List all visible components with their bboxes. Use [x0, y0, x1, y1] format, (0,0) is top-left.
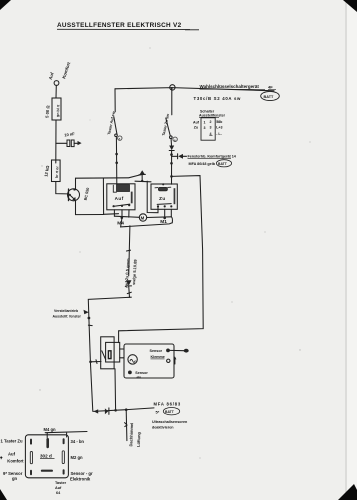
svg-text:Zu: Zu [159, 196, 166, 201]
wire [55, 85, 57, 98]
wire to terminal [170, 349, 184, 351]
wire [74, 142, 78, 144]
svg-text:M1: M1 [160, 219, 167, 225]
svg-text:Verstellantrieb: Verstellantrieb [54, 309, 78, 313]
relay K1 coil [117, 185, 130, 192]
rail connector circle [170, 85, 175, 90]
svg-text:1: 1 [204, 120, 206, 124]
paper speckles [39, 47, 310, 458]
svg-text:58b: 58b [216, 120, 223, 124]
svg-text:gn bl rt: gn bl rt [56, 104, 61, 117]
transistor Q1 BC550 [68, 189, 80, 201]
svg-text:Auf: Auf [193, 121, 200, 125]
resistor R1 500 ohm [52, 98, 61, 120]
table Schalter Ausstellfenster [193, 110, 226, 141]
wire [115, 138, 117, 185]
svg-text:Lüftung: Lüftung [136, 431, 142, 447]
svg-text:BATT: BATT [264, 95, 275, 99]
svg-text:34 - bn: 34 - bn [71, 439, 85, 444]
wire [171, 151, 173, 185]
diode D2 [178, 154, 183, 159]
terminal Auf/Komfort [54, 81, 59, 86]
title [57, 22, 199, 30]
plug stubs [120, 348, 124, 350]
svg-text:Elektronik: Elektronik [70, 477, 91, 482]
diode D3 [126, 280, 132, 285]
wire emitter down [70, 195, 75, 200]
actuator box sensor unit [124, 344, 174, 378]
svg-text:MFA 86/83: MFA 86/83 [154, 402, 182, 407]
svg-text:Ultraschallsensoren: Ultraschallsensoren [152, 420, 188, 424]
svg-text:Klemme: Klemme [151, 355, 165, 359]
wire stub to plug [91, 361, 102, 363]
svg-text:Auf: Auf [115, 196, 124, 201]
svg-text:br rt or: br rt or [55, 165, 60, 178]
resistor R2 12k [52, 160, 61, 182]
svg-text:2: 2 [210, 120, 212, 124]
svg-text:BATT: BATT [165, 410, 175, 414]
paper edge line [345, 0, 347, 500]
svg-text:1 Taster Zu: 1 Taster Zu [1, 438, 23, 443]
wire [56, 182, 68, 194]
scan corner bottom-left [0, 489, 7, 500]
wire M4 cross link [121, 218, 172, 227]
wire left vertical [89, 318, 93, 411]
svg-text:Auf: Auf [8, 452, 16, 457]
svg-text:4F: 4F [268, 85, 273, 90]
scan corner bottom-right [338, 484, 357, 500]
svg-text:8: 8 [171, 86, 173, 90]
relay K2 contact arm [157, 203, 171, 206]
svg-text:deaktivieren: deaktivieren [152, 425, 174, 429]
svg-text:Dachhimmel: Dachhimmel [128, 423, 134, 447]
scan corner top-right [343, 0, 357, 12]
svg-text:Komfort: Komfort [7, 459, 24, 464]
svg-text:MFA 86/48 gelb: MFA 86/48 gelb [189, 162, 216, 166]
svg-text:Zu: Zu [194, 126, 198, 130]
svg-text:Ausstellf. fenster: Ausstellf. fenster [53, 314, 82, 318]
svg-text:Wahlschlüsselschaltergerät: Wahlschlüsselschaltergerät [200, 84, 260, 89]
wire bottom horizontal [94, 408, 155, 412]
svg-text:M: M [141, 215, 145, 220]
wire diode branch [172, 155, 178, 157]
svg-text:4: 4 [210, 132, 212, 136]
svg-text:gn: gn [12, 476, 18, 481]
svg-text:Auf: Auf [55, 486, 62, 490]
svg-text:BATT: BATT [218, 162, 228, 166]
svg-text:Ausstellfenster: Ausstellfenster [199, 113, 226, 117]
plug connector X1 [101, 337, 114, 369]
wire plug down [114, 369, 117, 411]
diode D1 [170, 139, 172, 145]
relay K2 pins [157, 205, 159, 207]
svg-text:M2 gn: M2 gn [71, 455, 84, 460]
relay K1 contact bar [131, 192, 133, 204]
relay K2 coil [158, 187, 167, 190]
svg-text:5*: 5* [156, 410, 160, 415]
sensor arrow [174, 358, 176, 364]
svg-text:Sensor - gr: Sensor - gr [71, 471, 93, 476]
wire K2 pin1 wrap [147, 181, 158, 213]
wire to right bus [119, 176, 204, 343]
supply arrow [135, 180, 151, 183]
motor M [139, 214, 146, 221]
label arrow [84, 310, 89, 314]
connector block slots [30, 438, 65, 475]
switch S2 Taster Zu [171, 88, 173, 115]
relay K2 Zu [151, 184, 177, 209]
wire M4 feed [45, 432, 87, 433]
motor bus wire [114, 216, 139, 217]
wire collector up [76, 175, 141, 190]
svg-text:302 d: 302 d [40, 453, 52, 458]
diode D4 [105, 408, 108, 414]
wire [128, 286, 131, 297]
wire left [88, 297, 131, 318]
motor M2 [128, 355, 137, 364]
svg-text:L+3: L+3 [216, 126, 222, 130]
wire cap branch [56, 142, 67, 144]
relay K1 Auf [107, 184, 135, 210]
wire middle down [129, 226, 130, 276]
relay K2 contact bar [174, 188, 176, 204]
wire drop Dachhimmel [125, 410, 128, 441]
relay K1 contact arm [113, 204, 130, 206]
svg-text:eln: eln [137, 375, 142, 379]
svg-text:Fensterhb. Komfortgerät 14: Fensterhb. Komfortgerät 14 [188, 155, 237, 159]
ground arrow [78, 141, 82, 145]
svg-text:Sensor: Sensor [150, 349, 163, 353]
top rail wire [115, 88, 274, 91]
scan corner top-left [0, 0, 11, 10]
svg-text:Taster: Taster [55, 481, 67, 485]
svg-text:M4 gn: M4 gn [44, 427, 57, 432]
svg-text:M4: M4 [117, 220, 124, 226]
wire left loop [102, 178, 104, 215]
svg-text:T30c/B S2 40A sw: T30c/B S2 40A sw [194, 96, 242, 101]
connector a1 [118, 136, 122, 140]
connector block 302d [25, 435, 68, 478]
svg-text:3: 3 [210, 125, 212, 129]
svg-text:- L-: - L- [216, 132, 222, 136]
capacitor C1 10nF [67, 140, 70, 147]
relay K1 pins [113, 210, 115, 216]
switch S1 Taster Auf [114, 89, 116, 112]
wire [55, 120, 57, 163]
svg-text:AUSSTELLFENSTER ELEKTRISCH V: AUSSTELLFENSTER ELEKTRISCH V2 [57, 22, 182, 29]
svg-text:3: 3 [204, 126, 206, 130]
connector a2 [173, 137, 177, 141]
